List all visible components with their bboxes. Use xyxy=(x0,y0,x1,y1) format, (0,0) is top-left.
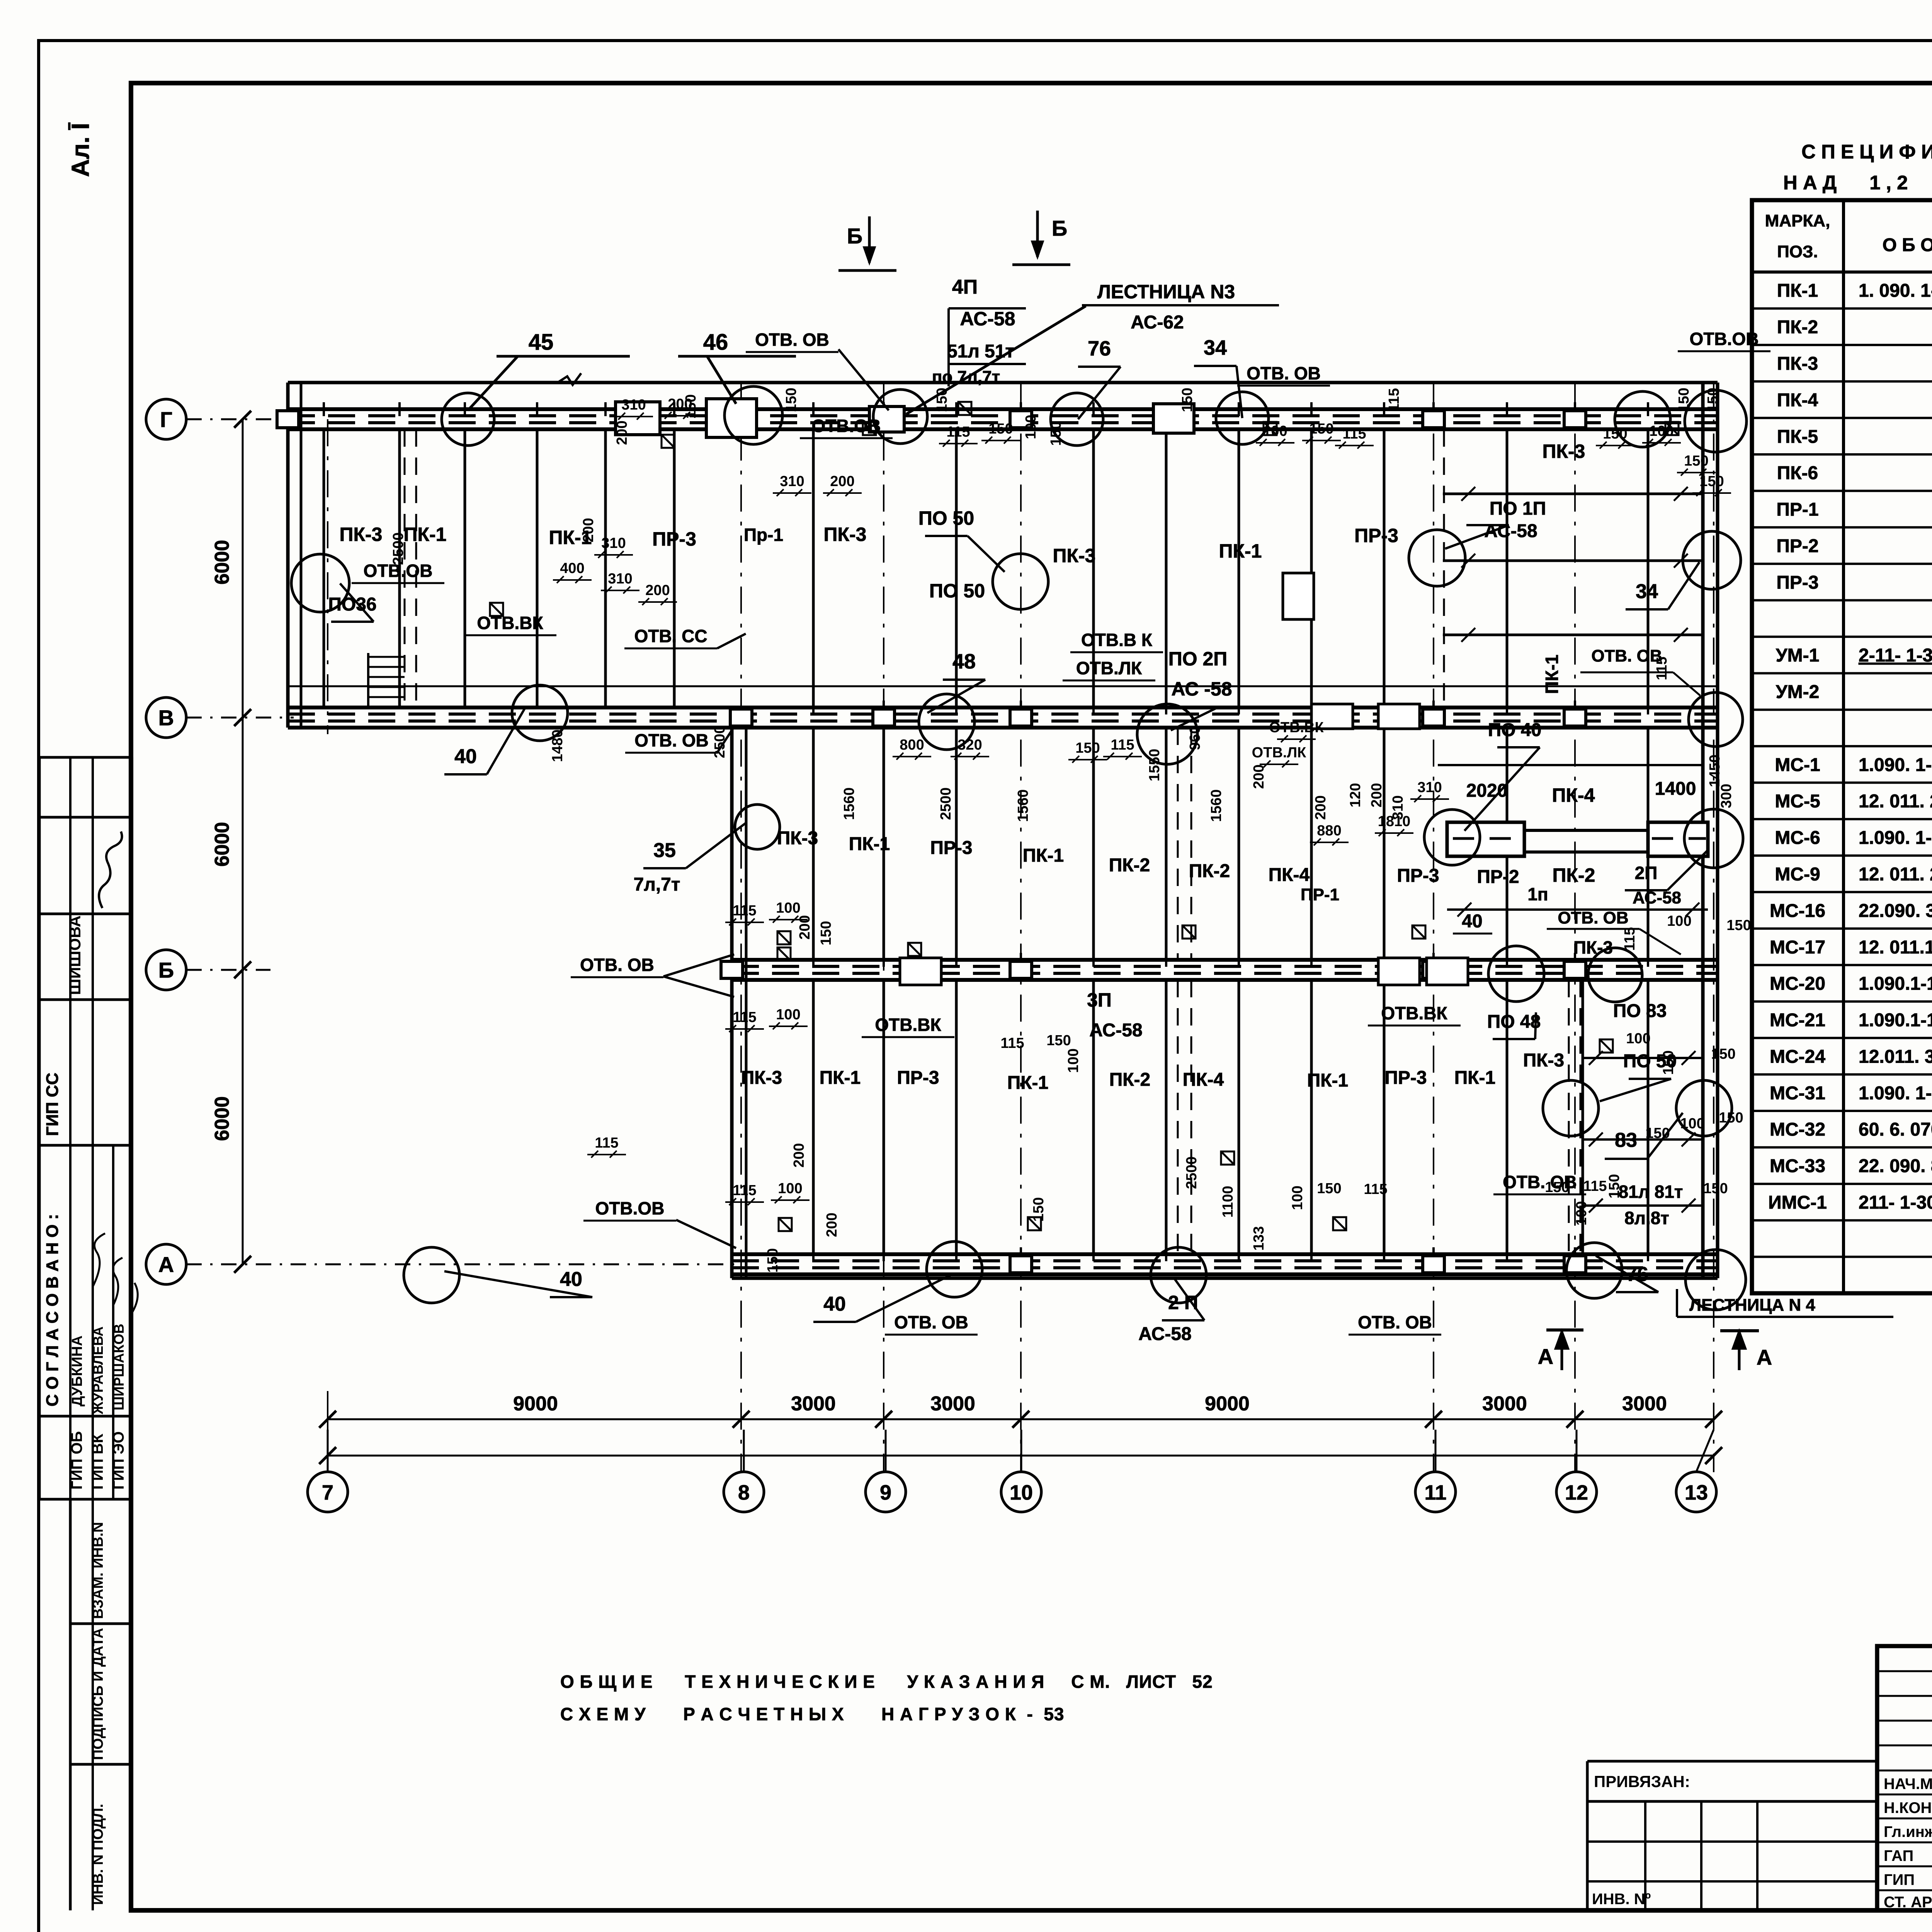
svg-text:МС-20: МС-20 xyxy=(1770,974,1825,994)
svg-text:2500: 2500 xyxy=(938,787,954,820)
svg-text:ПК-3: ПК-3 xyxy=(1523,1050,1564,1071)
svg-text:АС -58: АС -58 xyxy=(1171,678,1232,700)
svg-text:ПК-1: ПК-1 xyxy=(820,1068,861,1088)
svg-text:115: 115 xyxy=(1583,1178,1607,1194)
wall rectangles along band G xyxy=(616,402,660,435)
svg-text:ПК-1: ПК-1 xyxy=(849,834,890,854)
svg-text:200: 200 xyxy=(580,518,597,542)
svg-text:133: 133 xyxy=(1251,1226,1267,1250)
svg-text:40: 40 xyxy=(1462,911,1482,932)
svg-text:1560: 1560 xyxy=(1208,789,1225,822)
svg-text:ПО 50: ПО 50 xyxy=(929,580,985,602)
lower strip boxes VZAM INV xyxy=(69,1499,72,1910)
svg-text:150: 150 xyxy=(988,421,1013,437)
svg-text:200: 200 xyxy=(614,420,630,445)
svg-text:ДУБКИНА: ДУБКИНА xyxy=(69,1335,85,1406)
svg-text:ОТВ. ОВ: ОТВ. ОВ xyxy=(1558,908,1628,927)
horizontal panel lines right section upper xyxy=(1443,493,1703,495)
svg-text:8л.8т: 8л.8т xyxy=(1624,1208,1669,1228)
left wall upper section xyxy=(286,383,290,728)
svg-text:ОТВ.ЛК: ОТВ.ЛК xyxy=(1076,658,1142,678)
svg-text:ПК-3: ПК-3 xyxy=(824,524,867,545)
svg-text:ИНВ. N ПОДЛ.: ИНВ. N ПОДЛ. xyxy=(90,1804,106,1905)
svg-text:Ал. Ī: Ал. Ī xyxy=(66,122,94,177)
svg-text:Б: Б xyxy=(847,224,862,248)
svg-text:51л 51т: 51л 51т xyxy=(947,341,1014,362)
svg-text:УМ-2: УМ-2 xyxy=(1776,682,1820,702)
svg-text:МАРКА,: МАРКА, xyxy=(1765,211,1830,230)
axis 12 stem xyxy=(1576,1430,1578,1472)
svg-text:ЖУРАВЛЕВА: ЖУРАВЛЕВА xyxy=(90,1327,106,1415)
axis 8 stem xyxy=(743,1430,745,1472)
svg-text:11: 11 xyxy=(1424,1481,1446,1504)
svg-text:МС-33: МС-33 xyxy=(1770,1156,1825,1177)
column axis circle 10 xyxy=(1001,1472,1041,1512)
lestnica N3 diagonal leader xyxy=(906,306,1086,414)
svg-text:ПК-3: ПК-3 xyxy=(1777,354,1818,374)
dashed shaft lines mid/lower xyxy=(1177,728,1179,960)
svg-text:46: 46 xyxy=(703,330,728,355)
svg-text:ПО 48: ПО 48 xyxy=(1487,1012,1541,1032)
svg-text:МС-6: МС-6 xyxy=(1775,828,1820,848)
svg-text:ПК-4: ПК-4 xyxy=(1552,784,1595,806)
svg-text:150: 150 xyxy=(1075,740,1100,756)
svg-text:ПК-1: ПК-1 xyxy=(1542,655,1562,694)
svg-text:ОТВ. ОВ: ОТВ. ОВ xyxy=(1247,363,1321,383)
svg-text:9000: 9000 xyxy=(1205,1393,1250,1415)
svg-text:100: 100 xyxy=(1649,423,1673,439)
svg-text:9000: 9000 xyxy=(513,1393,558,1415)
small opening symbols (squares with diagonal) xyxy=(490,402,1679,1231)
svg-text:А: А xyxy=(1757,1345,1772,1369)
svg-text:150: 150 xyxy=(1046,1032,1071,1049)
dashed line along axis 11 xyxy=(1443,429,1445,707)
svg-text:С Х Е М У Р А С Ч Е Т Н: С Х Е М У Р А С Ч Е Т Н Ы Х Н А Г Р У З … xyxy=(560,1704,1065,1724)
svg-text:ПК-2: ПК-2 xyxy=(1777,317,1818,338)
svg-text:1450: 1450 xyxy=(1707,755,1723,787)
panel joint tick marks xyxy=(314,402,1658,1261)
svg-text:ЛЕСТНИЦА N3: ЛЕСТНИЦА N3 xyxy=(1097,281,1235,303)
svg-text:150: 150 xyxy=(1684,453,1708,469)
column axis circle 12 xyxy=(1556,1472,1597,1512)
svg-text:МС-24: МС-24 xyxy=(1770,1046,1825,1067)
svg-text:ГИП: ГИП xyxy=(1884,1871,1915,1888)
svg-text:200: 200 xyxy=(791,1143,807,1167)
signature squiggle Shishova xyxy=(99,832,122,908)
svg-text:АС-58: АС-58 xyxy=(960,308,1015,330)
column axis circle 13 xyxy=(1676,1472,1716,1512)
svg-text:310: 310 xyxy=(1417,779,1442,796)
svg-text:100: 100 xyxy=(1667,913,1691,929)
axis А circle xyxy=(146,1244,186,1284)
svg-text:200: 200 xyxy=(1313,795,1329,820)
svg-text:ОТВ. ОВ: ОТВ. ОВ xyxy=(634,730,709,750)
svg-text:О Б Щ И Е Т Е Х Н И Ч Е С: О Б Щ И Е Т Е Х Н И Ч Е С К И Е У К А З … xyxy=(560,1672,1213,1692)
svg-text:211- 1-307. 85- АСИ.: 211- 1-307. 85- АСИ. xyxy=(1859,1192,1932,1213)
left stamp strip grid xyxy=(39,756,133,759)
svg-text:115: 115 xyxy=(733,1009,756,1026)
svg-text:150: 150 xyxy=(1545,1179,1569,1196)
svg-text:ОТВ.ВК: ОТВ.ВК xyxy=(1381,1003,1447,1023)
callout leader lines xyxy=(331,366,1708,1322)
svg-text:С П Е Ц И Ф И К А Ц И Я Э: С П Е Ц И Ф И К А Ц И Я Э Л Е М Е Н Т О … xyxy=(1801,141,1932,163)
svg-text:1810: 1810 xyxy=(1378,813,1411,830)
svg-text:Н А Д 1 , 2 Э Т А Ж А: Н А Д 1 , 2 Э Т А Ж А М И И П О К Р Ы Т … xyxy=(1783,172,1932,194)
svg-text:150: 150 xyxy=(818,921,834,945)
svg-text:3000: 3000 xyxy=(1622,1393,1667,1415)
svg-text:ОТВ. ОВ: ОТВ. ОВ xyxy=(755,330,829,350)
wall band axis В xyxy=(288,706,1718,709)
svg-text:ОТВ.ВК: ОТВ.ВК xyxy=(477,613,543,633)
svg-text:12.011. 350 ВЫП.8-1: 12.011. 350 ВЫП.8-1 xyxy=(1859,1046,1932,1067)
svg-text:ПО 1П: ПО 1П xyxy=(1490,498,1546,519)
svg-text:100: 100 xyxy=(776,900,800,916)
svg-text:100: 100 xyxy=(1289,1185,1306,1210)
svg-text:ПР-3: ПР-3 xyxy=(1354,525,1398,546)
svg-text:200: 200 xyxy=(645,582,670,599)
svg-text:310: 310 xyxy=(621,397,646,413)
svg-text:100: 100 xyxy=(778,1180,802,1197)
svg-text:ПК-2: ПК-2 xyxy=(1109,1070,1150,1090)
svg-text:150: 150 xyxy=(783,388,799,412)
svg-text:115: 115 xyxy=(1364,1181,1387,1197)
svg-text:40: 40 xyxy=(454,745,477,768)
svg-text:2-11- 1-307.85АС лист57: 2-11- 1-307.85АС лист57 xyxy=(1859,645,1932,666)
axis Г circle xyxy=(146,399,186,439)
svg-text:100: 100 xyxy=(1263,423,1287,439)
spec table row lines xyxy=(1752,307,1932,310)
axis 10 stem xyxy=(1020,1430,1022,1472)
svg-text:100: 100 xyxy=(1065,1048,1082,1073)
svg-text:ПК-1: ПК-1 xyxy=(1219,540,1262,562)
title block small grid xyxy=(1877,1670,1932,1672)
svg-text:7: 7 xyxy=(322,1481,333,1504)
svg-text:ПО 40: ПО 40 xyxy=(1488,720,1542,740)
panel joints lower section xyxy=(812,980,815,1254)
svg-text:ИМС-1: ИМС-1 xyxy=(1768,1192,1827,1213)
column axis circle 11 xyxy=(1415,1472,1456,1512)
svg-text:880: 880 xyxy=(1317,823,1341,839)
svg-text:12. 011. 200: 12. 011. 200 xyxy=(1859,791,1932,812)
svg-text:150: 150 xyxy=(765,1248,781,1272)
svg-text:2 П: 2 П xyxy=(1168,1292,1198,1313)
svg-text:150: 150 xyxy=(1317,1180,1341,1197)
svg-text:ПР-3: ПР-3 xyxy=(1776,572,1818,593)
svg-text:100: 100 xyxy=(1573,1201,1590,1225)
svg-text:ГИП ОБ: ГИП ОБ xyxy=(68,1431,85,1490)
horizontal panel lines right section V-B xyxy=(1438,764,1703,766)
svg-text:МС-21: МС-21 xyxy=(1770,1010,1825,1031)
lestnica N3 underline xyxy=(1082,304,1279,306)
svg-text:ПР-3: ПР-3 xyxy=(1384,1068,1427,1088)
svg-text:150: 150 xyxy=(1726,917,1751,934)
svg-text:ОТВ. СС: ОТВ. СС xyxy=(634,626,707,646)
svg-text:12. 011.150: 12. 011.150 xyxy=(1859,937,1932,957)
svg-text:6000: 6000 xyxy=(211,822,233,867)
left axis dimension chain line xyxy=(242,419,244,1264)
svg-text:ГИП ВК: ГИП ВК xyxy=(89,1434,106,1490)
svg-text:О Б О З Н А Ч Е Н И Е: О Б О З Н А Ч Е Н И Е xyxy=(1883,235,1932,255)
svg-text:ГАП: ГАП xyxy=(1884,1847,1913,1864)
svg-text:ПК-3: ПК-3 xyxy=(741,1068,782,1088)
axis В circle xyxy=(146,697,186,738)
svg-text:ПР-3: ПР-3 xyxy=(930,838,972,858)
svg-text:Пр-1: Пр-1 xyxy=(744,525,783,545)
svg-text:10: 10 xyxy=(1010,1481,1033,1504)
svg-text:ПР-3: ПР-3 xyxy=(652,528,696,550)
svg-text:115: 115 xyxy=(946,424,970,440)
svg-text:ПР-2: ПР-2 xyxy=(1477,867,1519,887)
spec table column lines xyxy=(1842,200,1845,1293)
svg-text:34: 34 xyxy=(1636,580,1658,603)
svg-text:40: 40 xyxy=(823,1293,846,1315)
svg-text:Г: Г xyxy=(160,407,172,432)
svg-text:ОТВ.ОВ: ОТВ.ОВ xyxy=(1690,329,1759,349)
svg-text:9: 9 xyxy=(880,1481,891,1504)
svg-text:ГИП СС: ГИП СС xyxy=(43,1073,62,1136)
svg-text:ПК-3: ПК-3 xyxy=(1543,440,1585,462)
svg-text:1.090. 1-1 ВЫП. 8-1: 1.090. 1-1 ВЫП. 8-1 xyxy=(1859,1083,1932,1104)
axis А stub line xyxy=(186,1264,734,1265)
svg-text:ОТВ.ЛК: ОТВ.ЛК xyxy=(1252,745,1306,761)
svg-text:МС-31: МС-31 xyxy=(1770,1083,1825,1104)
svg-text:310: 310 xyxy=(780,473,804,490)
svg-text:300: 300 xyxy=(1718,784,1735,808)
svg-text:ПК-3: ПК-3 xyxy=(340,524,383,545)
svg-text:960: 960 xyxy=(1187,726,1203,750)
svg-text:100: 100 xyxy=(1680,1116,1704,1132)
svg-text:100: 100 xyxy=(776,1007,800,1023)
svg-text:ПК-1: ПК-1 xyxy=(1023,845,1064,866)
privyazan sub grid xyxy=(1587,1840,1877,1843)
axis 9 stem xyxy=(885,1430,887,1472)
svg-text:ПО 2П: ПО 2П xyxy=(1168,648,1227,670)
svg-text:ОТВ.ВК: ОТВ.ВК xyxy=(875,1015,941,1035)
vertical axis grid lines xyxy=(740,383,742,1472)
svg-text:150: 150 xyxy=(1031,1197,1047,1221)
extra OTV leader lines xyxy=(663,349,889,1248)
svg-text:1400: 1400 xyxy=(1655,779,1696,799)
svg-text:115: 115 xyxy=(733,1182,756,1199)
column squares at axis intersections xyxy=(277,411,1586,1273)
svg-text:3000: 3000 xyxy=(930,1393,975,1415)
svg-text:С О Г Л А С О В А Н О :: С О Г Л А С О В А Н О : xyxy=(43,1214,62,1406)
svg-text:22.090. 300: 22.090. 300 xyxy=(1859,901,1932,921)
svg-text:35: 35 xyxy=(653,839,676,862)
panel joints upper section xyxy=(323,429,325,707)
svg-text:МС-32: МС-32 xyxy=(1770,1119,1825,1140)
slab top edge line xyxy=(288,381,1718,384)
svg-text:МС-5: МС-5 xyxy=(1775,791,1820,812)
svg-text:150: 150 xyxy=(1309,421,1333,437)
svg-text:48: 48 xyxy=(952,650,976,673)
building bottom edge xyxy=(732,1277,1718,1280)
svg-text:60. 6. 070. 80: 60. 6. 070. 80 xyxy=(1859,1119,1932,1140)
svg-text:1.090. 1-1. ВЫП. 7-1: 1.090. 1-1. ВЫП. 7-1 xyxy=(1859,755,1932,775)
svg-text:115: 115 xyxy=(1622,927,1638,951)
svg-text:ВЗАМ. ИНВ.N: ВЗАМ. ИНВ.N xyxy=(90,1522,106,1619)
svg-text:115: 115 xyxy=(1386,388,1402,412)
svg-text:2П: 2П xyxy=(1635,863,1658,883)
svg-text:150: 150 xyxy=(1676,388,1692,412)
svg-text:400: 400 xyxy=(560,560,584,577)
axis 7 stem xyxy=(327,1430,329,1472)
svg-text:12: 12 xyxy=(1565,1481,1588,1504)
svg-text:ПОЗ.: ПОЗ. xyxy=(1777,242,1818,261)
svg-text:ПО 83: ПО 83 xyxy=(1613,1001,1667,1021)
svg-text:2500: 2500 xyxy=(1184,1156,1200,1189)
callout 45 underline and leader xyxy=(497,355,630,358)
svg-text:НАЧ.МАСТ: НАЧ.МАСТ xyxy=(1884,1776,1932,1793)
svg-text:115: 115 xyxy=(733,903,756,919)
svg-text:150: 150 xyxy=(1703,1180,1728,1197)
svg-text:Гл.инж.про: Гл.инж.про xyxy=(1884,1823,1932,1840)
svg-text:115: 115 xyxy=(1342,426,1366,442)
svg-text:7л,7т: 7л,7т xyxy=(634,874,680,895)
svg-text:АС-62: АС-62 xyxy=(1131,312,1184,333)
axis В stub line xyxy=(186,717,294,719)
svg-text:ПОДПИСЬ И ДАТА: ПОДПИСЬ И ДАТА xyxy=(90,1628,106,1760)
svg-text:А: А xyxy=(1538,1344,1553,1369)
svg-text:150: 150 xyxy=(1660,1050,1677,1075)
svg-text:МС-16: МС-16 xyxy=(1770,901,1825,921)
svg-text:АС-58: АС-58 xyxy=(1089,1020,1143,1041)
svg-text:ПР-2: ПР-2 xyxy=(1776,536,1818,556)
svg-text:115: 115 xyxy=(1000,1035,1024,1051)
svg-text:3П: 3П xyxy=(1087,989,1112,1011)
signatures Soglasovano xyxy=(93,1233,138,1314)
svg-text:100: 100 xyxy=(1626,1031,1650,1047)
svg-text:ОТВ. ОВ: ОТВ. ОВ xyxy=(1358,1312,1432,1332)
svg-text:1.090.1-1 ВЫП.8-1: 1.090.1-1 ВЫП.8-1 xyxy=(1859,974,1932,994)
svg-text:ПК-5: ПК-5 xyxy=(1777,427,1818,447)
svg-text:200: 200 xyxy=(1251,764,1267,789)
svg-text:150: 150 xyxy=(1711,1046,1735,1062)
left wall lower section xyxy=(730,728,734,1278)
svg-text:12. 011. 260: 12. 011. 260 xyxy=(1859,864,1932,884)
column axis circle 7 xyxy=(308,1472,348,1512)
lestnica N4 underline and box xyxy=(1677,1316,1893,1318)
svg-text:СТ. АРХ.: СТ. АРХ. xyxy=(1884,1894,1932,1911)
svg-text:ПК-2: ПК-2 xyxy=(1553,864,1595,886)
svg-text:76: 76 xyxy=(1088,337,1111,360)
svg-text:200: 200 xyxy=(830,473,854,490)
svg-text:115: 115 xyxy=(1111,737,1134,753)
callout circles on plan xyxy=(291,386,1747,1310)
axis Б circle xyxy=(146,950,186,990)
right wall xyxy=(1701,383,1705,1278)
svg-text:115: 115 xyxy=(595,1135,618,1151)
svg-text:ПК-1: ПК-1 xyxy=(1454,1068,1495,1088)
svg-text:МС-9: МС-9 xyxy=(1775,864,1820,884)
svg-text:2500: 2500 xyxy=(390,532,406,565)
svg-text:ПК-3: ПК-3 xyxy=(1573,937,1613,957)
svg-text:8: 8 xyxy=(738,1481,750,1504)
svg-text:ШИШОВА: ШИШОВА xyxy=(66,915,84,995)
svg-text:13: 13 xyxy=(1685,1481,1708,1504)
svg-text:ПР-1: ПР-1 xyxy=(1301,885,1339,904)
svg-text:ОТВ.ОВ: ОТВ.ОВ xyxy=(595,1198,665,1218)
svg-text:ГИП ЭО: ГИП ЭО xyxy=(110,1431,127,1490)
svg-text:ПО 50: ПО 50 xyxy=(918,507,974,529)
title block outer xyxy=(1877,1646,1932,1910)
svg-text:УМ-1: УМ-1 xyxy=(1776,645,1820,666)
staircase rungs upper-left xyxy=(367,653,369,707)
wall rectangles along bands V,B xyxy=(1311,704,1353,729)
svg-text:ПК-4: ПК-4 xyxy=(1269,865,1310,885)
wall band axis Г xyxy=(288,407,1718,411)
svg-text:ПК-6: ПК-6 xyxy=(1777,463,1818,483)
svg-text:150: 150 xyxy=(1048,421,1064,446)
svg-text:100: 100 xyxy=(1023,415,1039,439)
wall band axis Б xyxy=(732,958,1718,962)
svg-text:ПК-4: ПК-4 xyxy=(1183,1070,1224,1090)
svg-text:А: А xyxy=(158,1252,174,1277)
svg-text:40: 40 xyxy=(560,1268,582,1291)
svg-text:320: 320 xyxy=(957,737,982,753)
svg-text:120: 120 xyxy=(1347,783,1364,807)
svg-text:ОТВ.ОВ: ОТВ.ОВ xyxy=(812,416,881,436)
svg-text:81л 81т: 81л 81т xyxy=(1619,1182,1683,1202)
column axis circle 8 xyxy=(724,1472,764,1512)
svg-text:В: В xyxy=(158,706,174,730)
svg-text:1.090.1-1 ВЫП. 7-1: 1.090.1-1 ВЫП. 7-1 xyxy=(1859,1010,1932,1031)
svg-text:Н.КОНТР.: Н.КОНТР. xyxy=(1884,1799,1932,1816)
svg-text:МС-17: МС-17 xyxy=(1770,937,1825,957)
svg-text:ПК-1: ПК-1 xyxy=(1307,1070,1348,1091)
svg-text:150: 150 xyxy=(1603,426,1627,442)
svg-text:ПРИВЯЗАН:: ПРИВЯЗАН: xyxy=(1594,1772,1690,1791)
callout 4P bracket box xyxy=(947,308,950,386)
beam PK-4 right section xyxy=(1447,829,1708,832)
svg-text:6000: 6000 xyxy=(211,1096,233,1141)
svg-text:ПК-1: ПК-1 xyxy=(404,524,447,545)
panel joints middle section xyxy=(812,728,815,960)
svg-text:ПР-3: ПР-3 xyxy=(1397,866,1439,886)
svg-text:310: 310 xyxy=(601,535,626,551)
axis Г stub line xyxy=(186,418,294,420)
svg-text:ПР-3: ПР-3 xyxy=(897,1068,939,1088)
svg-text:ПК-1: ПК-1 xyxy=(1007,1073,1048,1093)
svg-text:34: 34 xyxy=(1204,336,1227,359)
svg-text:ПР-1: ПР-1 xyxy=(1776,500,1818,520)
svg-text:ПК-3: ПК-3 xyxy=(1053,545,1096,566)
svg-text:ОТВ. ОВ: ОТВ. ОВ xyxy=(894,1312,968,1332)
svg-text:2500: 2500 xyxy=(712,726,728,759)
svg-text:АС-58: АС-58 xyxy=(1138,1324,1192,1344)
axis Б stub line xyxy=(186,969,270,971)
axis 11 stem xyxy=(1435,1430,1437,1472)
svg-text:45: 45 xyxy=(529,330,554,355)
svg-text:ШИРШАКОВ: ШИРШАКОВ xyxy=(111,1324,127,1410)
svg-text:1.090. 1-1 ВЫП. 8-1: 1.090. 1-1 ВЫП. 8-1 xyxy=(1859,828,1932,848)
svg-text:1550: 1550 xyxy=(1146,749,1163,782)
svg-text:3000: 3000 xyxy=(1482,1393,1527,1415)
wall band axis А xyxy=(732,1252,1718,1256)
top edge break symbol xyxy=(556,373,581,385)
svg-text:6000: 6000 xyxy=(211,540,233,585)
svg-text:83: 83 xyxy=(1615,1129,1637,1151)
svg-text:1100: 1100 xyxy=(1220,1186,1236,1218)
svg-text:МС-1: МС-1 xyxy=(1775,755,1820,775)
svg-text:150: 150 xyxy=(1699,473,1724,490)
svg-text:200: 200 xyxy=(797,915,813,939)
svg-text:ПК-2: ПК-2 xyxy=(1189,861,1230,881)
svg-text:22. 090. 800: 22. 090. 800 xyxy=(1859,1156,1932,1177)
column axis circle 9 xyxy=(866,1472,906,1512)
svg-text:ПК-4: ПК-4 xyxy=(1777,390,1818,410)
svg-text:ЛЕСТНИЦА N 4: ЛЕСТНИЦА N 4 xyxy=(1689,1296,1815,1315)
